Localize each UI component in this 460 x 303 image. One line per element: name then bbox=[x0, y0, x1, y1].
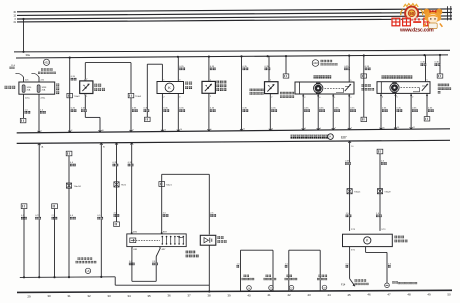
connector box x440 bbox=[437, 74, 443, 78]
svg-text:T10b/9: T10b/9 bbox=[135, 96, 142, 98]
svg-text:35: 35 bbox=[147, 294, 151, 298]
relay pin label 4/86 bbox=[131, 232, 138, 234]
temperature sensor label bbox=[94, 84, 105, 91]
label 2.5 left leg bbox=[163, 213, 169, 217]
wire K-box pin2 to control unit bbox=[161, 94, 163, 132]
svg-text:29: 29 bbox=[27, 294, 31, 298]
bus end hatch marks bbox=[448, 6, 451, 20]
watermark red brand text bbox=[391, 17, 433, 26]
connector T16a/1 bbox=[159, 182, 173, 187]
column numbers bbox=[27, 292, 451, 298]
splice T36a/5 bbox=[347, 189, 361, 194]
svg-text:50: 50 bbox=[409, 11, 414, 16]
relay pin label 8/87 bbox=[161, 232, 168, 234]
label 0.35 K pin1 bbox=[144, 108, 150, 112]
rail lower supply bbox=[16, 55, 448, 58]
wire aq pin3 to F14 point bbox=[350, 247, 355, 287]
wire control unit to relay coil bbox=[130, 143, 133, 234]
label 2.5 relay 4/87 bbox=[152, 261, 158, 265]
label 0.35 x241 top bbox=[243, 66, 249, 70]
label 0.75 wire 1A bbox=[35, 215, 41, 219]
blower motor label above bbox=[314, 75, 332, 78]
wire from bus 30 down to rail 30a bbox=[22, 18, 24, 53]
ground text B bbox=[264, 275, 277, 281]
fresh air blower motor V2 box bbox=[295, 82, 354, 94]
bus line 15 bbox=[17, 12, 452, 15]
blower bottom pins bbox=[303, 95, 350, 96]
connector arc to fuse 1 bbox=[16, 73, 24, 82]
wire connector x380 to air quality sensor pin1 bbox=[379, 154, 381, 231]
svg-text:11: 11 bbox=[243, 129, 245, 131]
label 0.35 lower bbox=[71, 108, 77, 112]
F14 text bbox=[355, 279, 369, 285]
label 4.0 x69 upper bbox=[70, 162, 76, 166]
label 1.0 fuse1 bbox=[25, 109, 31, 113]
ground point circle bbox=[289, 285, 294, 290]
wire relay 4/85 down bbox=[132, 248, 160, 281]
connector stub x54.5 bbox=[52, 204, 58, 209]
label 0.35 blower pin bbox=[334, 108, 340, 112]
label 0.35 x241 bottom bbox=[243, 108, 249, 112]
wire blower pin to control unit bbox=[302, 94, 304, 130]
ground text A bbox=[242, 275, 255, 281]
svg-text:T36a/5: T36a/5 bbox=[354, 191, 361, 193]
control unit pin arrow top bbox=[302, 128, 306, 130]
svg-text:30a: 30a bbox=[26, 53, 31, 57]
connector T10b/9 bbox=[128, 93, 142, 98]
control unit pin arrow top bbox=[394, 127, 399, 129]
label 0.35 flap pin1 bbox=[428, 108, 434, 112]
svg-text:50: 50 bbox=[447, 292, 451, 296]
ground point circle bbox=[269, 286, 274, 291]
fuse S236 bbox=[22, 85, 32, 93]
control unit pin arrow top bbox=[380, 127, 385, 129]
label 0.35 vent bottom bbox=[271, 108, 277, 112]
sensor bottom pin 1 bbox=[85, 94, 89, 98]
label 1.5 loop B bbox=[285, 263, 289, 267]
K-box pins bbox=[163, 79, 181, 98]
ground point circle bbox=[247, 286, 252, 291]
ground point circle bbox=[322, 285, 327, 290]
control unit pin arrow top bbox=[161, 129, 166, 131]
svg-text:T10b/2: T10b/2 bbox=[74, 96, 81, 98]
svg-text:12: 12 bbox=[413, 127, 415, 129]
bus line 31 bbox=[17, 19, 452, 22]
fuse output labels bbox=[25, 97, 46, 99]
vent sensor label left bbox=[250, 89, 264, 95]
wire blower pin to control unit bbox=[348, 94, 350, 130]
connector stub x24 bbox=[21, 204, 27, 209]
wire K-box pin4 to control unit bbox=[177, 94, 179, 132]
svg-text:T36a/9: T36a/9 bbox=[384, 191, 391, 193]
watermark mascot bbox=[423, 9, 442, 29]
label 0.35 flap pin bbox=[397, 108, 403, 112]
svg-text:41: 41 bbox=[267, 293, 271, 297]
label 0.35 x131 bbox=[128, 162, 134, 166]
wire blower pin to control unit bbox=[332, 94, 334, 130]
ground circle right bbox=[385, 283, 390, 288]
wire flap motor pin to control unit bbox=[380, 93, 382, 129]
flap motor bottom pins bbox=[380, 95, 427, 96]
connector start x380 bbox=[377, 149, 383, 154]
ground loop A bbox=[241, 250, 274, 291]
connection loop T16a bbox=[162, 174, 210, 234]
watermark seal emblem bbox=[401, 4, 423, 20]
control unit pin arrow top bbox=[68, 130, 72, 132]
svg-text:2: 2 bbox=[71, 130, 72, 132]
wire stub x54.5 to ground bus bbox=[54, 209, 56, 278]
splice T36a/9 bbox=[377, 189, 391, 194]
label 0.35 blower pin bbox=[350, 108, 356, 112]
control unit pin arrow top bbox=[38, 131, 42, 133]
svg-text:16: 16 bbox=[397, 127, 399, 129]
svg-text:4: 4 bbox=[351, 128, 352, 130]
battery connection text middle bbox=[321, 60, 338, 66]
splice T8c/6 bbox=[114, 182, 127, 187]
connector T10b/2 bbox=[67, 93, 81, 98]
svg-text:37: 37 bbox=[187, 294, 191, 298]
svg-text:1: 1 bbox=[41, 131, 42, 133]
vent temperature sensor box bbox=[265, 82, 279, 94]
label 1.0 fuse2 bbox=[40, 109, 46, 113]
splice T4bc/34 bbox=[66, 183, 81, 188]
relay label bbox=[186, 251, 199, 258]
bus line 30 bbox=[17, 9, 452, 12]
control unit pin arrow top bbox=[332, 128, 336, 130]
stub wire rail to connectors x364 bbox=[363, 56, 365, 118]
ground bus 31a bbox=[20, 276, 115, 279]
label 0.35 blower pin bbox=[304, 108, 310, 112]
svg-text:40: 40 bbox=[247, 293, 251, 297]
wire fuse1 down bbox=[23, 94, 25, 118]
label 1.5 aq left lower bbox=[346, 213, 352, 217]
recirculation sensor label bbox=[216, 81, 226, 91]
wire flap motor pin to control unit bbox=[410, 93, 412, 129]
stub wire rail to connector x440 bbox=[439, 55, 441, 74]
svg-text:www.dzsc.com: www.dzsc.com bbox=[399, 27, 434, 33]
connector end fuse1 wire bbox=[20, 118, 26, 122]
wire aq pin2 bottom jog to ground bbox=[366, 247, 387, 284]
control unit title bbox=[291, 135, 329, 139]
control unit pin arrow top bbox=[410, 127, 415, 129]
svg-text:32: 32 bbox=[87, 294, 91, 298]
svg-text:45: 45 bbox=[347, 293, 351, 297]
svg-text:44: 44 bbox=[327, 293, 331, 297]
node A32 connection circle left bbox=[43, 59, 49, 65]
label 0.35 vent top bbox=[265, 66, 271, 70]
svg-text:8n: 8n bbox=[103, 147, 105, 149]
recirculation air sensor box bbox=[202, 81, 215, 93]
control unit pin arrow top bbox=[317, 128, 321, 130]
wire connector x69 to ground bus bbox=[68, 156, 70, 277]
svg-text:30: 30 bbox=[47, 294, 51, 298]
wire fuse2 down to control unit bbox=[38, 94, 40, 133]
label 0.35 aq left upper bbox=[345, 161, 351, 165]
wire vent sensor top to rail bbox=[269, 56, 272, 81]
label 1.0 relay 4/85 bbox=[129, 261, 135, 265]
svg-text:5: 5 bbox=[211, 129, 212, 131]
label 0.35 blower pin bbox=[319, 108, 325, 112]
wire compressor to ground line bbox=[208, 245, 210, 292]
svg-text:43: 43 bbox=[307, 293, 311, 297]
wire recirc sensor top to rail bbox=[209, 57, 212, 82]
sensor top pin 2 bbox=[85, 79, 89, 81]
flap motor right label bbox=[438, 84, 451, 94]
control unit circled K bbox=[328, 134, 334, 140]
svg-text:49: 49 bbox=[427, 292, 431, 296]
label 19.0 wire left bbox=[10, 65, 16, 69]
svg-text:A32: A32 bbox=[44, 60, 49, 64]
svg-text:48: 48 bbox=[407, 293, 411, 297]
connection text above circle bbox=[76, 257, 97, 263]
svg-text:10: 10 bbox=[102, 130, 104, 132]
aq bottom pin labels bbox=[351, 249, 356, 251]
svg-text:E87: E87 bbox=[341, 135, 347, 139]
ground text D bbox=[317, 275, 327, 281]
air quality sensor box G238 bbox=[343, 234, 393, 246]
label 0.35 x440 bbox=[435, 62, 441, 66]
connector end flap pin1 bbox=[424, 117, 430, 121]
node A32 connection circle middle bbox=[312, 60, 319, 67]
wire vent sensor bottom to control unit bbox=[270, 94, 273, 131]
battery connection text left bbox=[38, 68, 56, 74]
svg-text:A32: A32 bbox=[313, 61, 318, 65]
label 0.5 aq ground bbox=[346, 263, 350, 267]
compressor clutch label bbox=[217, 236, 226, 243]
fuse box label right vertical bbox=[56, 84, 59, 95]
wire sensor top jog right bbox=[85, 63, 131, 94]
label 0.35 x116 upper bbox=[113, 162, 119, 166]
rail junction dots bbox=[69, 54, 442, 59]
wire T10b/9 to control unit bbox=[130, 98, 132, 132]
wire sensor bottom jog bbox=[85, 95, 100, 132]
label 0.35 recirc bottom bbox=[210, 108, 216, 112]
connector end x116 bbox=[114, 222, 120, 227]
label 0.35 K pin4 bbox=[179, 108, 185, 112]
svg-text:47: 47 bbox=[387, 293, 391, 297]
svg-text:K: K bbox=[329, 135, 331, 139]
bus terminal labels bbox=[13, 11, 16, 24]
svg-text:33: 33 bbox=[107, 294, 111, 298]
fuse S238 bbox=[37, 85, 47, 93]
connector box x364 upper bbox=[361, 74, 367, 78]
air quality sensor label bbox=[394, 236, 407, 243]
svg-text:F14: F14 bbox=[341, 283, 346, 286]
svg-text:15: 15 bbox=[383, 127, 385, 129]
air quality sensor pins bbox=[351, 229, 386, 231]
ground loop B bbox=[289, 250, 320, 291]
svg-text:39: 39 bbox=[227, 293, 231, 297]
svg-text:38: 38 bbox=[207, 294, 211, 298]
label 0.5 aq pin2 bbox=[388, 263, 392, 267]
vent sensor label right-under bbox=[280, 92, 294, 98]
A/C control unit E87 bottom edge bbox=[17, 140, 450, 143]
wire K-box pin1 jog to connector end bbox=[147, 64, 162, 117]
control unit pin arrow top bbox=[177, 129, 182, 131]
label 0.35 flap top bbox=[421, 62, 427, 66]
fuse input labels 225 226 bbox=[25, 80, 45, 82]
wire blower pin to control unit bbox=[317, 94, 319, 130]
label 0.5 aq right upper bbox=[381, 161, 387, 165]
K-box label right bbox=[185, 82, 192, 89]
stub wire rail to connector x286 bbox=[285, 56, 287, 74]
blower motor right label bbox=[362, 84, 375, 90]
svg-text:46: 46 bbox=[367, 293, 371, 297]
svg-text:9: 9 bbox=[133, 130, 134, 132]
compressor clutch box bbox=[200, 235, 216, 245]
svg-text:3: 3 bbox=[305, 128, 306, 130]
svg-text:T8c/6: T8c/6 bbox=[121, 185, 127, 187]
sunlight sensor unit U-K box bbox=[157, 82, 184, 94]
label 0.35 K pin2 bbox=[163, 108, 169, 112]
svg-text:14: 14 bbox=[180, 129, 182, 131]
control unit pin arrow top bbox=[269, 128, 273, 130]
svg-text:13: 13 bbox=[164, 129, 166, 131]
label 4.0 x69 lower bbox=[70, 215, 76, 219]
wire control unit to connector end x116 bbox=[115, 143, 118, 222]
label 0.35 K pin3 bbox=[179, 66, 185, 70]
label 0.35 flap pin bbox=[412, 108, 418, 112]
control unit pin arrow top bbox=[348, 128, 352, 130]
label 0.5 x24 bbox=[21, 215, 27, 219]
label 2.5 x54.5 bbox=[52, 215, 58, 219]
label 0.35 recirc top bbox=[210, 66, 216, 70]
staircase bus to bottom line bbox=[115, 277, 209, 285]
control unit pin arrow top bbox=[207, 129, 211, 131]
label 0.35 sensor bottom bbox=[81, 108, 87, 112]
connector box x364 lower end bbox=[361, 117, 367, 121]
bus line X bbox=[17, 16, 452, 19]
blower pin top to rail bbox=[349, 56, 352, 82]
connector box x286 bbox=[283, 74, 289, 78]
ground text C bbox=[285, 275, 298, 281]
wire control unit 1A to ground bus bbox=[38, 143, 44, 277]
flap motor pin top to rail bbox=[426, 55, 429, 82]
label 0.35 sensor return bbox=[132, 108, 138, 112]
label 0.5 x101 bbox=[97, 215, 103, 219]
svg-text:T16a/1: T16a/1 bbox=[166, 184, 173, 186]
label 2.5 right leg bbox=[210, 213, 216, 217]
ground bus junction dots bbox=[23, 276, 103, 279]
label 0.35 blower top bbox=[344, 66, 350, 70]
clutch relay box bbox=[127, 234, 186, 247]
wire control unit to air quality sensor pin2 bbox=[348, 141, 354, 231]
A/C control unit E87 top edge bbox=[17, 129, 450, 133]
control unit pin arrow top bbox=[240, 129, 245, 131]
svg-text:8: 8 bbox=[320, 128, 321, 130]
fuse box label left bbox=[5, 86, 16, 89]
flap motor label above bbox=[382, 75, 413, 78]
relay bottom pin 4/85 bbox=[131, 247, 138, 251]
svg-text:31: 31 bbox=[67, 294, 71, 298]
connector below control unit x69 bbox=[66, 151, 72, 156]
wire control unit Bn to ground bus bbox=[100, 143, 105, 277]
bottom border line bbox=[17, 290, 452, 292]
fuse box dashed S236 S238 bbox=[19, 82, 55, 94]
ground text right bbox=[392, 281, 417, 284]
wire recirc sensor bottom to control unit bbox=[209, 93, 212, 131]
label 1.5 aq right lower bbox=[376, 213, 382, 217]
wire rail to T10b connector bbox=[69, 58, 71, 133]
wire K-box pin3 to rail bbox=[177, 57, 179, 82]
svg-text:34: 34 bbox=[127, 294, 131, 298]
wire rail to control unit x241 bbox=[241, 56, 243, 130]
connector arc to fuse 2 bbox=[32, 73, 40, 82]
wire flap motor pin to control unit bbox=[395, 93, 397, 129]
svg-text:6: 6 bbox=[272, 128, 273, 130]
connection circle L on bus bbox=[85, 268, 90, 273]
label 0.35 flap pin bbox=[382, 108, 388, 112]
svg-text:7: 7 bbox=[335, 128, 336, 130]
svg-text:42: 42 bbox=[287, 293, 291, 297]
rail 30a upper bbox=[14, 50, 450, 52]
temperature sensor G89 bbox=[80, 81, 93, 94]
label 0.35 x364 bbox=[365, 66, 371, 70]
wire flap motor pin1 to connector end bbox=[426, 93, 428, 116]
svg-text:T4bc/34: T4bc/34 bbox=[74, 186, 82, 188]
svg-text:K: K bbox=[168, 85, 171, 90]
relay bottom pin 4/87 bbox=[160, 247, 167, 251]
connector end K-box pin1 bbox=[145, 117, 151, 121]
label 4.5 x116 lower bbox=[114, 213, 120, 217]
wire stub x24 to ground bus bbox=[23, 209, 25, 278]
svg-text:36: 36 bbox=[167, 294, 171, 298]
control unit pin arrow top bbox=[130, 130, 134, 132]
control unit pin arrow top bbox=[99, 130, 104, 132]
label 5.35 wire bbox=[71, 76, 77, 80]
label 1.5 loop A bbox=[237, 263, 241, 267]
temperature flap motor box bbox=[377, 82, 430, 94]
